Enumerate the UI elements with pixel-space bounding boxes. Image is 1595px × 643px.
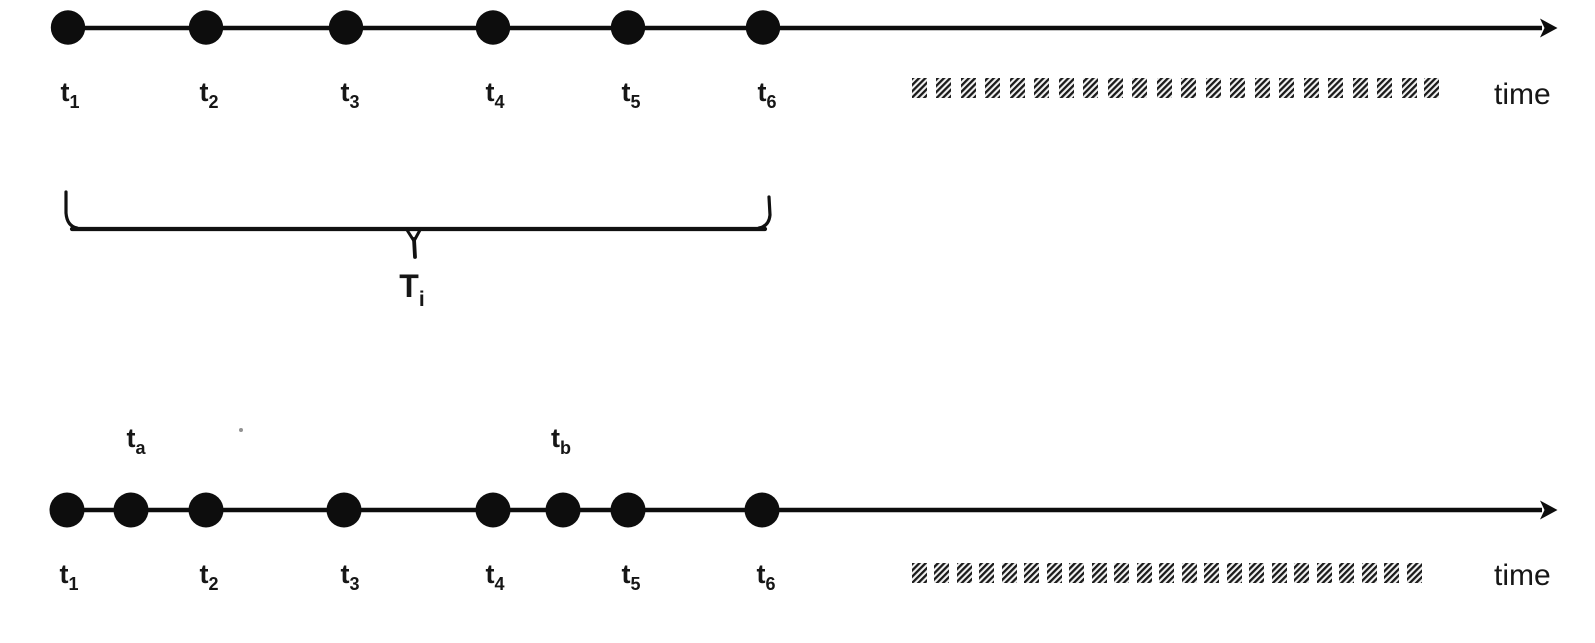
top ellipsis of hatched marker blocks: [912, 78, 1439, 98]
bottom ellipsis of hatched marker blocks: [912, 563, 1422, 583]
svg-text:time: time: [1494, 78, 1551, 111]
svg-text:time: time: [1494, 559, 1551, 592]
top timeline axis with arrowhead: [52, 26, 1542, 30]
bottom timeline axis with arrowhead: [52, 508, 1542, 512]
top timeline tick labels t1..t6: [60, 77, 776, 112]
bottom timeline tick labels t1..t6: [59, 559, 775, 594]
interval brace spanning t1..t6: [66, 192, 770, 257]
top timeline event dots t1..t6: [51, 10, 780, 44]
bottom timeline event dots (t1, ta, t2, t3, t4, tb, t5, t6): [50, 493, 780, 528]
faint scan speck: [239, 428, 243, 432]
